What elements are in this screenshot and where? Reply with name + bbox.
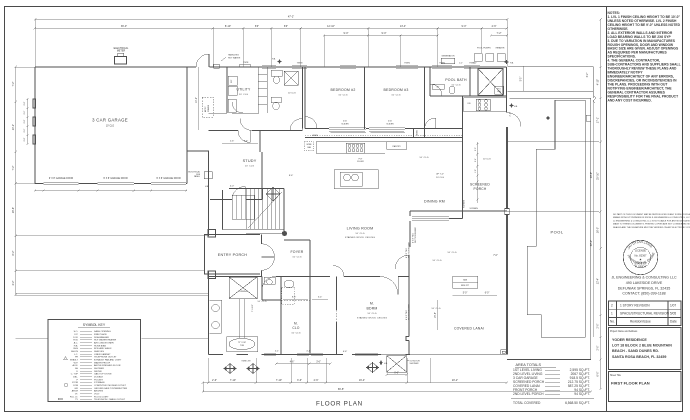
svg-text:UP 7'-0": UP 7'-0" bbox=[436, 174, 444, 176]
svg-text:CLO: CLO bbox=[292, 326, 299, 330]
svg-text:NO PART OF THIS DOCUMENT MAY B: NO PART OF THIS DOCUMENT MAY BE REPRODUC… bbox=[613, 213, 690, 216]
svg-text:FLOOD LIGHT: FLOOD LIGHT bbox=[94, 396, 109, 398]
svg-text:10' CLG: 10' CLG bbox=[432, 260, 441, 262]
svg-text:GFI: GFI bbox=[74, 388, 78, 390]
svg-text:AREA TOTALS: AREA TOTALS bbox=[516, 363, 542, 367]
svg-text:MEANS WITHOUT PERMISSION FROM: MEANS WITHOUT PERMISSION FROM JL ENGINEE… bbox=[613, 216, 690, 219]
svg-text:LIVING ROOM: LIVING ROOM bbox=[347, 227, 374, 231]
svg-text:LINEN CABINET: LINEN CABINET bbox=[94, 353, 111, 356]
kitchen east wall bbox=[463, 96, 507, 136]
svg-text:10' CLG: 10' CLG bbox=[338, 95, 347, 97]
sheet title box bbox=[609, 372, 682, 402]
svg-text:2'-0": 2'-0" bbox=[24, 110, 26, 114]
garage door panels bbox=[44, 181, 187, 183]
master vanity sinks bbox=[210, 300, 222, 333]
svg-text:2'-6": 2'-6" bbox=[510, 112, 512, 117]
utility door arc bbox=[232, 102, 259, 113]
svg-text:STOR: STOR bbox=[72, 382, 78, 384]
master suite north wall bbox=[209, 276, 410, 278]
svg-text:YODER RESIDENCE: YODER RESIDENCE bbox=[612, 338, 647, 342]
svg-text:8'-6": 8'-6" bbox=[292, 297, 297, 299]
svg-text:10' CLG: 10' CLG bbox=[355, 233, 364, 235]
foyer walls bbox=[284, 240, 310, 277]
stair diagonal bbox=[248, 192, 282, 228]
svg-text:4'x6': 4'x6' bbox=[388, 121, 393, 123]
left extension horizontals bbox=[16, 66, 35, 68]
svg-text:EXHAUST FAN AND LIGHT: EXHAUST FAN AND LIGHT bbox=[94, 359, 122, 362]
svg-text:R&S: R&S bbox=[74, 348, 79, 350]
utility / bath block walls bbox=[227, 67, 305, 129]
svg-text:BEDROOM #2: BEDROOM #2 bbox=[331, 88, 356, 92]
fire pit box bbox=[453, 276, 478, 288]
svg-text:HOT WATER HEATER: HOT WATER HEATER bbox=[94, 339, 117, 342]
svg-text:COMPUTER / MODEM OUTLET: COMPUTER / MODEM OUTLET bbox=[94, 385, 127, 387]
svg-text:DEFUNIAK SPRINGS, FL 32435: DEFUNIAK SPRINGS, FL 32435 bbox=[618, 286, 670, 290]
svg-text:2'-2": 2'-2" bbox=[473, 62, 477, 64]
svg-text:7'-2": 7'-2" bbox=[12, 165, 15, 170]
vertical dim 10-2 by attic bbox=[198, 67, 200, 130]
pool pumps heater boxes bbox=[474, 54, 482, 62]
svg-text:5/05: 5/05 bbox=[670, 312, 676, 316]
svg-text:COM: COM bbox=[73, 385, 78, 387]
svg-text:H.W.: H.W. bbox=[73, 340, 78, 342]
svg-text:BEDROOM #3: BEDROOM #3 bbox=[384, 88, 409, 92]
svg-text:4'-6": 4'-6" bbox=[492, 25, 497, 28]
svg-text:10' CLG: 10' CLG bbox=[257, 301, 266, 303]
svg-text:H.B.: H.B. bbox=[384, 363, 388, 365]
stair newel knob bbox=[282, 231, 287, 236]
svg-text:JL ENGINEERING & CONSULTING: JL ENGINEERING & CONSULTING LLC bbox=[611, 276, 677, 280]
svg-text:10' CLG: 10' CLG bbox=[367, 313, 376, 315]
svg-text:Project Name and Address: Project Name and Address bbox=[610, 330, 638, 333]
svg-text:BEACH - SAND DUNES RD.: BEACH - SAND DUNES RD. bbox=[612, 349, 659, 353]
lanai deck outline bbox=[507, 98, 591, 359]
svg-text:4'-6": 4'-6" bbox=[314, 379, 319, 382]
svg-text:10' CLG: 10' CLG bbox=[288, 93, 296, 95]
svg-text:C. TOP: C. TOP bbox=[71, 374, 79, 376]
svg-text:DRYER: DRYER bbox=[94, 371, 102, 373]
svg-text:M.: M. bbox=[370, 302, 374, 306]
svg-text:2: 2 bbox=[611, 303, 613, 307]
hall openings bbox=[209, 113, 228, 131]
dining south wall bbox=[449, 211, 463, 219]
svg-text:3'-6": 3'-6" bbox=[297, 379, 302, 382]
bottom overall dim bbox=[203, 391, 591, 393]
svg-text:DOUBLE: DOUBLE bbox=[94, 376, 104, 378]
hall south wall bbox=[209, 130, 303, 132]
svg-text:No.: No. bbox=[610, 320, 615, 324]
svg-text:W.P.: W.P. bbox=[74, 362, 79, 364]
svg-text:HOSE BIBB: HOSE BIBB bbox=[94, 345, 106, 347]
svg-text:WATER PROOF: WATER PROOF bbox=[94, 361, 111, 364]
balcony overhang lines top right bbox=[508, 66, 593, 98]
m. clo east wall bbox=[336, 277, 338, 355]
house right exterior wall upper bbox=[506, 67, 508, 113]
wine cab bbox=[304, 142, 313, 151]
svg-text:2ND LEVEL PORCH: 2ND LEVEL PORCH bbox=[513, 392, 544, 396]
svg-text:36'-0": 36'-0" bbox=[121, 25, 127, 28]
svg-text:10' CLG: 10' CLG bbox=[106, 126, 115, 128]
svg-text:9' X 8' GARAGE DOOR: 9' X 8' GARAGE DOOR bbox=[49, 177, 74, 180]
svg-text:1: 1 bbox=[611, 312, 613, 316]
svg-text:F.P.: F.P. bbox=[75, 334, 79, 336]
utility cabinet column bbox=[258, 67, 267, 113]
svg-text:PH: PH bbox=[75, 357, 78, 359]
svg-text:GENERATOR: GENERATOR bbox=[442, 55, 455, 58]
right dimension chain bbox=[600, 19, 602, 389]
svg-text:FLOOR PLAN: FLOOR PLAN bbox=[316, 401, 363, 408]
svg-text:PANTRY: PANTRY bbox=[392, 145, 401, 148]
porch door at top right with arc bbox=[507, 113, 521, 127]
hose bibb symbols bbox=[379, 361, 383, 365]
svg-text:7'-2": 7'-2" bbox=[497, 32, 502, 35]
pool bath fixtures bbox=[432, 84, 444, 89]
svg-text:10' CLG: 10' CLG bbox=[447, 252, 456, 254]
screen porch bottom boundary bbox=[463, 210, 508, 212]
stair rails bottom bbox=[223, 230, 285, 234]
svg-text:10' CLG: 10' CLG bbox=[451, 85, 460, 87]
svg-text:L.C.: L.C. bbox=[74, 354, 78, 356]
svg-text:13'-4": 13'-4" bbox=[400, 25, 406, 28]
svg-text:9'-0": 9'-0" bbox=[382, 32, 387, 35]
svg-text:4'-2": 4'-2" bbox=[12, 280, 15, 285]
house top exterior wall bbox=[187, 66, 507, 68]
svg-text:STUDY: STUDY bbox=[243, 159, 257, 163]
svg-text:ARCH: ARCH bbox=[72, 390, 79, 393]
svg-text:FOYER: FOYER bbox=[290, 250, 303, 254]
svg-text:UTILITY: UTILITY bbox=[236, 88, 251, 92]
living/dining east wall with sliders bbox=[409, 211, 411, 247]
svg-text:5'-0": 5'-0" bbox=[463, 293, 468, 295]
svg-text:LINEN: LINEN bbox=[312, 135, 318, 137]
svg-text:490 LAKESIDE DRIVE: 490 LAKESIDE DRIVE bbox=[626, 281, 663, 285]
kitchen island bbox=[334, 170, 378, 189]
svg-text:9' X 8' GARAGE DOOR: 9' X 8' GARAGE DOOR bbox=[156, 177, 181, 180]
bottom dimension chain bbox=[203, 382, 507, 384]
svg-text:6'-6": 6'-6" bbox=[343, 351, 348, 353]
svg-text:CONTACT: (850)-399-1188: CONTACT: (850)-399-1188 bbox=[622, 292, 665, 296]
svg-text:GROUND FAULT INTERRUPTER: GROUND FAULT INTERRUPTER bbox=[94, 387, 128, 390]
utility washer dryer bbox=[228, 76, 237, 85]
svg-text:TELEPHONE OUTLET: TELEPHONE OUTLET bbox=[94, 357, 117, 359]
svg-text:POOL PUMPS: POOL PUMPS bbox=[477, 48, 491, 50]
svg-text:SYMBOL KEY: SYMBOL KEY bbox=[83, 323, 106, 327]
svg-text:7'-10": 7'-10" bbox=[230, 379, 236, 382]
house left wall segments bbox=[208, 151, 210, 355]
svg-text:STORAGE: STORAGE bbox=[94, 381, 105, 384]
svg-text:8'-6": 8'-6" bbox=[244, 141, 249, 143]
svg-text:H.B.: H.B. bbox=[74, 345, 79, 347]
master bath shower X bbox=[229, 277, 257, 299]
bedroom divider walls bbox=[365, 67, 425, 137]
svg-text:2'-0": 2'-0" bbox=[475, 147, 477, 151]
screen wall right (thick) bbox=[506, 127, 508, 209]
svg-text:2'-0": 2'-0" bbox=[24, 128, 26, 132]
svg-text:SECTION SLIDER: SECTION SLIDER bbox=[408, 304, 410, 320]
twin window bump bbox=[239, 65, 251, 67]
svg-text:DINING RM: DINING RM bbox=[424, 200, 445, 204]
svg-text:DISHWASHER: DISHWASHER bbox=[94, 336, 109, 339]
tankless unit on wall bbox=[214, 64, 220, 68]
svg-text:M.: M. bbox=[294, 322, 298, 326]
svg-text:DBL.: DBL. bbox=[73, 376, 78, 378]
svg-text:SCREENED: SCREENED bbox=[470, 183, 490, 187]
master bath toilets bbox=[264, 277, 275, 284]
pool bath walls bbox=[430, 67, 470, 96]
linen dashed box in wc bbox=[282, 287, 295, 304]
svg-text:SHLVS: SHLVS bbox=[71, 351, 79, 353]
svg-text:SLIDER: SLIDER bbox=[341, 123, 349, 125]
svg-text:16'-0": 16'-0" bbox=[597, 227, 600, 233]
bottom wall windows bbox=[264, 353, 276, 355]
project name box bbox=[609, 328, 682, 370]
svg-text:6'-6": 6'-6" bbox=[394, 373, 399, 375]
svg-text:7'-0": 7'-0" bbox=[493, 255, 498, 257]
copyright disclaimer paragraph bbox=[613, 213, 690, 229]
svg-text:SPACE/STRUCTURAL REVISION: SPACE/STRUCTURAL REVISION bbox=[620, 312, 670, 316]
svg-text:10' CLG: 10' CLG bbox=[239, 94, 248, 96]
svg-text:S.O.: S.O. bbox=[74, 331, 79, 333]
svg-text:2'-8": 2'-8" bbox=[24, 137, 26, 141]
bedroom2 door arc bbox=[305, 117, 317, 129]
porch corner columns bbox=[208, 230, 216, 238]
porch interior dim chain bbox=[476, 142, 478, 203]
left window dim chain bbox=[27, 99, 29, 144]
svg-text:10' CLG: 10' CLG bbox=[483, 159, 491, 161]
house bottom exterior wall bbox=[209, 354, 411, 356]
svg-text:D.W.: D.W. bbox=[73, 337, 78, 339]
svg-text:10'-2": 10'-2" bbox=[196, 97, 198, 103]
garage door dim line below bbox=[35, 190, 187, 192]
symbol key box bbox=[48, 320, 141, 402]
svg-text:16'-8": 16'-8" bbox=[590, 172, 593, 178]
svg-text:H.B.: H.B. bbox=[514, 106, 518, 108]
svg-text:5'-5": 5'-5" bbox=[521, 77, 523, 82]
electrical meter box bbox=[115, 57, 127, 65]
PE seal bbox=[623, 240, 657, 274]
svg-text:4'x6': 4'x6' bbox=[343, 121, 348, 123]
svg-text:1'-8": 1'-8" bbox=[475, 169, 477, 173]
svg-text:Revision/Issue: Revision/Issue bbox=[630, 320, 651, 324]
svg-text:TWIN: TWIN bbox=[404, 63, 410, 65]
svg-text:WINE: WINE bbox=[307, 144, 313, 146]
svg-text:17'-1": 17'-1" bbox=[597, 117, 600, 123]
svg-text:OUTDOOR: OUTDOOR bbox=[410, 361, 421, 363]
svg-text:15'-8": 15'-8" bbox=[435, 312, 437, 318]
bottom extension verticals bbox=[208, 358, 210, 383]
svg-text:4'-1": 4'-1" bbox=[306, 351, 310, 353]
svg-text:TWIN LITE: TWIN LITE bbox=[241, 361, 251, 363]
dining/porch boundary wall bbox=[410, 210, 463, 212]
svg-text:16'-4": 16'-4" bbox=[359, 379, 365, 382]
kitchen counter row bbox=[316, 142, 462, 154]
svg-text:COVERED LANAI: COVERED LANAI bbox=[454, 327, 484, 331]
screen porch left screen line bbox=[462, 148, 464, 212]
svg-text:4'-1": 4'-1" bbox=[275, 351, 279, 353]
pantry box bbox=[387, 142, 407, 150]
pocket door dashes bbox=[281, 300, 337, 322]
svg-text:6'6": 6'6" bbox=[284, 25, 288, 28]
bedroom south wall with closet sliders bbox=[305, 128, 463, 130]
svg-text:16'-8": 16'-8" bbox=[12, 207, 15, 213]
closet bottom wall bbox=[305, 136, 463, 138]
svg-text:LINEN: LINEN bbox=[417, 130, 419, 136]
stairs block walls bbox=[223, 189, 285, 234]
svg-text:TANKLESS: TANKLESS bbox=[228, 54, 239, 57]
svg-text:9'-0": 9'-0" bbox=[462, 25, 467, 28]
left dimension chain bbox=[15, 67, 17, 295]
svg-text:2'-6": 2'-6" bbox=[212, 379, 217, 382]
svg-text:6'-0": 6'-0" bbox=[485, 293, 490, 295]
interior door arcs bbox=[238, 131, 250, 143]
svg-text:STAINED WOOD CEILING: STAINED WOOD CEILING bbox=[345, 236, 375, 239]
top dimension line overall bbox=[35, 18, 507, 20]
svg-text:10' CLG: 10' CLG bbox=[436, 177, 444, 179]
pool outline bbox=[527, 100, 585, 337]
svg-text:TUB: TUB bbox=[240, 345, 245, 347]
garage bottom wall with door openings bbox=[35, 183, 187, 185]
top dimension tier 3 bbox=[324, 34, 507, 36]
svg-text:METER: METER bbox=[117, 50, 126, 53]
svg-text:A.C.: A.C. bbox=[74, 342, 79, 345]
svg-text:4'-10": 4'-10" bbox=[597, 79, 600, 85]
svg-text:TWIN: TWIN bbox=[243, 62, 248, 64]
fire pit dims bbox=[453, 294, 498, 296]
svg-text:7'-10": 7'-10" bbox=[276, 379, 282, 382]
svg-text:ENTRY PORCH: ENTRY PORCH bbox=[218, 253, 248, 257]
door arc at garage breezeway top bbox=[196, 54, 209, 67]
range dots on counter bbox=[346, 143, 365, 153]
revision table bbox=[609, 301, 682, 326]
garage outer walls bbox=[35, 67, 187, 184]
svg-text:4'-0": 4'-0" bbox=[230, 186, 235, 188]
svg-text:LOT 18 BLOCK 2 BLUE MOUNTAIN: LOT 18 BLOCK 2 BLUE MOUNTAIN bbox=[612, 344, 672, 348]
svg-text:3 CAR GARAGE: 3 CAR GARAGE bbox=[92, 118, 128, 123]
svg-text:STAIRS: STAIRS bbox=[207, 104, 210, 112]
top extension verticals bbox=[34, 19, 36, 67]
top dimension tier 2 bbox=[35, 27, 507, 29]
svg-text:72" X 36": 72" X 36" bbox=[238, 342, 247, 344]
svg-text:SLIDER: SLIDER bbox=[386, 123, 394, 125]
svg-text:OPENING: OPENING bbox=[239, 291, 248, 293]
svg-text:10' CLG: 10' CLG bbox=[292, 257, 301, 259]
svg-text:TOTAL COVERED: TOTAL COVERED bbox=[513, 401, 541, 405]
svg-text:7'-2": 7'-2" bbox=[12, 81, 15, 86]
pool bath shower X bbox=[478, 69, 503, 96]
lanai corner column bbox=[501, 350, 507, 355]
svg-text:12'-10": 12'-10" bbox=[327, 25, 335, 28]
svg-text:POOL BATH: POOL BATH bbox=[445, 78, 467, 82]
svg-text:SASH OPENING: SASH OPENING bbox=[94, 330, 111, 333]
svg-text:A.F.F.: A.F.F. bbox=[73, 364, 79, 367]
garage left wall window bumps bbox=[33, 99, 36, 144]
svg-text:FIRE PLACE: FIRE PLACE bbox=[94, 333, 107, 336]
symbol key small glyphs bbox=[64, 357, 68, 360]
svg-text:6'-2": 6'-2" bbox=[587, 73, 589, 78]
title block left border bbox=[606, 6, 608, 412]
svg-text:9' X 8' GARAGE DOOR: 9' X 8' GARAGE DOOR bbox=[103, 177, 128, 180]
svg-text:BDRM: BDRM bbox=[366, 307, 377, 311]
svg-text:9'-0": 9'-0" bbox=[344, 32, 349, 35]
svg-text:10'-2": 10'-2" bbox=[12, 124, 15, 130]
pool inner dims bbox=[593, 100, 595, 337]
svg-text:10' CLG: 10' CLG bbox=[419, 157, 428, 159]
stair treads upper flight bbox=[246, 189, 280, 229]
svg-text:PANEL: PANEL bbox=[194, 175, 200, 178]
svg-text:JL ENGINEERING & CONSULTING, L: JL ENGINEERING & CONSULTING, LLC IS NOT … bbox=[613, 219, 690, 222]
svg-text:2'-0": 2'-0" bbox=[597, 323, 600, 328]
ext chase box bbox=[495, 86, 504, 94]
master east wall with jog bbox=[406, 255, 409, 355]
svg-text:6'6": 6'6" bbox=[255, 25, 259, 28]
window sub dims bbox=[276, 363, 330, 365]
svg-text:25'-10": 25'-10" bbox=[597, 172, 600, 180]
svg-text:FIRE PIT: FIRE PIT bbox=[461, 285, 470, 287]
svg-text:2'-8": 2'-8" bbox=[24, 119, 26, 123]
svg-text:10' CLG: 10' CLG bbox=[431, 308, 440, 310]
svg-text:SCREEN: SCREEN bbox=[464, 199, 466, 208]
svg-text:HOT WATER: HOT WATER bbox=[228, 56, 241, 59]
svg-text:3'-4": 3'-4" bbox=[318, 297, 323, 299]
svg-text:Sheet Title: Sheet Title bbox=[610, 374, 622, 377]
svg-text:ATTIC: ATTIC bbox=[204, 106, 207, 112]
svg-text:VT.: VT. bbox=[75, 393, 79, 395]
study walls bbox=[210, 131, 262, 200]
electrical sub panel bbox=[204, 172, 212, 179]
study north wall bbox=[187, 150, 209, 152]
svg-text:AND ANY COST INCURRED.: AND ANY COST INCURRED. bbox=[608, 98, 652, 102]
svg-text:1 STORY REVISION: 1 STORY REVISION bbox=[620, 303, 650, 307]
svg-text:/ HEATER: / HEATER bbox=[495, 47, 505, 50]
svg-text:47'-2": 47'-2" bbox=[288, 16, 294, 19]
lanai inner dim 15-8 bbox=[437, 300, 439, 330]
svg-text:PORCH: PORCH bbox=[474, 187, 487, 191]
svg-text:H.B.: H.B. bbox=[205, 186, 209, 188]
svg-text:SHOWER: SHOWER bbox=[410, 363, 420, 365]
svg-text:LICENSE: LICENSE bbox=[635, 248, 646, 252]
svg-text:XFAULT: XFAULT bbox=[70, 359, 79, 362]
svg-text:SEALED AND THE SIGNATURE MUST: SEALED AND THE SIGNATURE MUST BE VERIFIE… bbox=[613, 226, 690, 229]
entry porch outline bbox=[205, 235, 260, 274]
master bath divider lines bbox=[240, 299, 245, 339]
master entry door arc bbox=[395, 255, 409, 269]
svg-text:2'-4": 2'-4" bbox=[475, 158, 477, 162]
svg-text:SHELVES: SHELVES bbox=[94, 351, 104, 353]
svg-text:SHOWER: SHOWER bbox=[94, 368, 104, 370]
stair lower flight box bbox=[232, 195, 255, 219]
svg-text:FLD. LT.: FLD. LT. bbox=[70, 396, 78, 398]
svg-text:GAS TOP STOVE: GAS TOP STOVE bbox=[94, 373, 112, 376]
svg-text:AIR CONDITIONER: AIR CONDITIONER bbox=[94, 342, 114, 345]
svg-text:10' CLG: 10' CLG bbox=[245, 166, 254, 168]
svg-text:10' CLG: 10' CLG bbox=[391, 95, 400, 97]
svg-text:SANTA ROSA BEACH, FL 32459: SANTA ROSA BEACH, FL 32459 bbox=[612, 355, 666, 359]
shower sub dim bbox=[387, 374, 407, 376]
svg-text:SECTION SLIDER: SECTION SLIDER bbox=[415, 227, 417, 243]
svg-text:TELEVISION / CABLE OUTLET: TELEVISION / CABLE OUTLET bbox=[94, 398, 126, 401]
svg-text:8'-10": 8'-10" bbox=[225, 25, 231, 28]
svg-text:ABOVE FINISHED FLOOR: ABOVE FINISHED FLOOR bbox=[94, 364, 121, 367]
svg-text:GAS: GAS bbox=[463, 279, 468, 282]
svg-text:7'-1 1/2": 7'-1 1/2" bbox=[252, 304, 254, 312]
svg-text:SCREEN: SCREEN bbox=[470, 208, 479, 210]
firm name block bbox=[611, 276, 677, 296]
svg-text:ROD AND SHELF: ROD AND SHELF bbox=[94, 347, 112, 350]
svg-text:POCKET: POCKET bbox=[94, 379, 104, 381]
pool skimmer box bbox=[586, 115, 591, 121]
extension lines across pool bbox=[507, 142, 599, 212]
svg-text:VOLT: VOLT bbox=[94, 393, 100, 395]
